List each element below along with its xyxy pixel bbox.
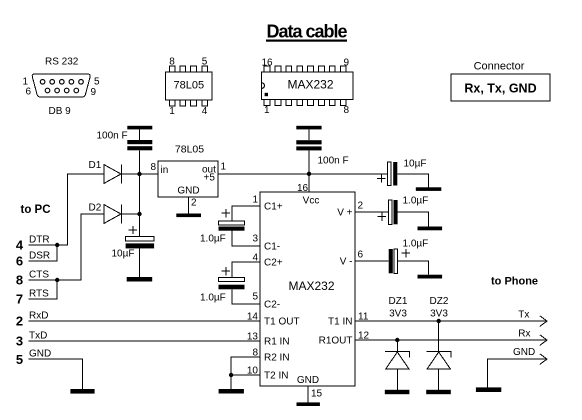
svg-text:1.0µF: 1.0µF bbox=[403, 196, 429, 207]
svg-text:DTR: DTR bbox=[29, 235, 50, 246]
wire MAX232 GND stub bbox=[307, 386, 309, 402]
node: D1 cathode / 100nF / supply rail bbox=[137, 172, 141, 176]
svg-text:C2-: C2- bbox=[264, 300, 280, 311]
wire V- to capacitor bbox=[355, 260, 389, 262]
svg-text:GND: GND bbox=[297, 375, 319, 386]
svg-text:100n F: 100n F bbox=[318, 156, 349, 167]
svg-text:8: 8 bbox=[150, 162, 156, 173]
node: DZ1 on Rx line bbox=[395, 338, 399, 342]
svg-text:1: 1 bbox=[264, 105, 270, 116]
svg-text:DSR: DSR bbox=[29, 251, 50, 262]
ground (DZ1) bbox=[385, 390, 410, 394]
svg-text:MAX232: MAX232 bbox=[288, 279, 334, 293]
capacitor 1.0uF (V+, polarized) bbox=[378, 196, 429, 225]
wire 78L05 gnd stub bbox=[188, 197, 190, 214]
svg-text:DB 9: DB 9 bbox=[49, 106, 72, 117]
svg-text:RTS: RTS bbox=[29, 289, 49, 300]
svg-text:GND: GND bbox=[29, 349, 51, 360]
pin 2 RxD bbox=[16, 311, 49, 329]
svg-text:in: in bbox=[161, 165, 169, 176]
connector DB9 (RS 232) top view bbox=[22, 57, 100, 118]
capacitor 100nF (input) bbox=[97, 131, 153, 151]
svg-text:6: 6 bbox=[16, 254, 23, 269]
svg-text:RS 232: RS 232 bbox=[45, 57, 79, 68]
wire R2 IN strap bbox=[231, 357, 260, 389]
svg-text:2: 2 bbox=[16, 314, 23, 329]
capacitor C1 1.0uF (polarized) bbox=[200, 209, 245, 245]
wire RxD to MAX232 T1 OUT (pin14) bbox=[29, 320, 261, 322]
wire D2 cathode to supply rail bbox=[121, 213, 139, 215]
svg-text:2: 2 bbox=[358, 201, 364, 212]
wire capacitor C1 to C1- bbox=[232, 231, 260, 246]
wire V+ to capacitor bbox=[355, 211, 389, 213]
svg-text:V +: V + bbox=[337, 208, 352, 219]
ground (V- cap) bbox=[418, 275, 443, 279]
svg-text:GND: GND bbox=[177, 186, 199, 197]
ground (DZ2) bbox=[426, 390, 451, 394]
svg-text:78L05: 78L05 bbox=[174, 80, 205, 92]
ground (below input 10uF) bbox=[127, 277, 153, 282]
capacitor 10uF (input, polarized) bbox=[112, 226, 155, 260]
wire GND (pin5) to ground bbox=[29, 359, 83, 389]
svg-text:C1+: C1+ bbox=[264, 202, 283, 213]
node: DSR joins DTR bbox=[55, 243, 59, 247]
svg-text:D2: D2 bbox=[89, 203, 102, 214]
capacitor 1.0uF (V-, polarized, reversed) bbox=[389, 239, 429, 274]
svg-text:8: 8 bbox=[16, 273, 23, 288]
arrow Tx bbox=[540, 316, 547, 327]
ground (MAX232 pin15) bbox=[297, 402, 320, 406]
diode D1 bbox=[89, 160, 122, 184]
voltage regulator 78L05 bbox=[158, 144, 218, 198]
node: DZ2 on Tx line bbox=[437, 319, 441, 323]
svg-text:1: 1 bbox=[252, 195, 258, 206]
svg-text:R1 IN: R1 IN bbox=[264, 337, 290, 348]
pin 5 GND bbox=[16, 349, 51, 368]
svg-text:CTS: CTS bbox=[29, 270, 49, 281]
svg-text:9: 9 bbox=[344, 57, 350, 68]
node: RTS joins CTS bbox=[55, 278, 59, 282]
arrow GND bbox=[540, 354, 547, 365]
ground (pin5) bbox=[70, 389, 94, 394]
svg-text:T1 OUT: T1 OUT bbox=[264, 317, 300, 328]
svg-text:13: 13 bbox=[247, 332, 259, 343]
svg-text:MAX232: MAX232 bbox=[287, 78, 333, 92]
svg-text:to PC: to PC bbox=[21, 204, 51, 216]
zener DZ2 3V3 bbox=[426, 296, 451, 390]
title "Data cable" bbox=[266, 21, 348, 41]
wire ground to Vcc 100nF bbox=[308, 129, 310, 140]
ground (phone GND) bbox=[476, 387, 501, 392]
arrow Rx bbox=[540, 335, 547, 346]
svg-text:+5: +5 bbox=[204, 173, 216, 184]
svg-text:7: 7 bbox=[16, 292, 23, 307]
svg-text:R1OUT: R1OUT bbox=[319, 336, 353, 347]
svg-text:Connector: Connector bbox=[474, 61, 525, 73]
wire DSR (pin6) up to DTR bbox=[29, 245, 58, 261]
capacitor C2 1.0uF (polarized) bbox=[200, 267, 245, 304]
svg-text:4: 4 bbox=[202, 106, 208, 117]
svg-text:GND: GND bbox=[513, 347, 535, 358]
svg-text:to Phone: to Phone bbox=[491, 276, 538, 288]
ground (above input 100nF) bbox=[127, 126, 152, 130]
wire 10uF to ground bbox=[397, 174, 428, 187]
svg-text:T1 IN: T1 IN bbox=[328, 317, 352, 328]
svg-text:1: 1 bbox=[169, 106, 175, 117]
node: Vcc tap on +5 rail bbox=[307, 172, 311, 176]
svg-text:5: 5 bbox=[202, 57, 208, 68]
capacitor 100nF (Vcc decoupling) bbox=[296, 140, 348, 166]
svg-text:1.0µF: 1.0µF bbox=[200, 293, 226, 304]
svg-text:8: 8 bbox=[169, 57, 175, 68]
pin 6 DSR bbox=[16, 251, 50, 269]
ground (10uF) bbox=[416, 187, 442, 191]
wire RTS (pin7) up to CTS bbox=[29, 280, 58, 299]
phone connector legend box bbox=[451, 61, 550, 102]
wire Vcc 100nF to rail bbox=[308, 150, 310, 174]
wire DTR (pin4) to D1 anode bbox=[29, 174, 104, 245]
wire capacitor C2 to C2- bbox=[232, 289, 260, 304]
wire V- cap to ground bbox=[398, 261, 429, 275]
capacitor 10uF (on +5 rail, polarized) bbox=[377, 159, 427, 186]
svg-text:R2 IN: R2 IN bbox=[264, 353, 290, 364]
svg-text:1: 1 bbox=[221, 162, 227, 173]
svg-text:100n F: 100n F bbox=[97, 131, 128, 142]
svg-text:DZ1: DZ1 bbox=[389, 296, 408, 307]
ground (above Vcc 100nF) bbox=[296, 126, 321, 130]
svg-text:T2 IN: T2 IN bbox=[264, 371, 288, 382]
wire TxD to MAX232 R1 IN (pin13) bbox=[29, 340, 261, 342]
wire C2+ to capacitor C2 bbox=[232, 262, 260, 278]
svg-text:Rx: Rx bbox=[518, 329, 530, 340]
svg-text:5: 5 bbox=[94, 77, 100, 88]
wire GND to arrow bbox=[488, 359, 547, 387]
IC package 78L05 (top view) bbox=[166, 57, 212, 118]
svg-text:8: 8 bbox=[344, 105, 350, 116]
svg-text:C2+: C2+ bbox=[264, 258, 283, 269]
svg-text:5: 5 bbox=[252, 292, 258, 303]
wire C1+ to capacitor C1 bbox=[232, 206, 260, 221]
wire ground to 100nF bbox=[139, 129, 141, 140]
pin 7 RTS bbox=[16, 289, 49, 307]
svg-text:TxD: TxD bbox=[29, 331, 47, 342]
ground (V+ cap) bbox=[418, 227, 443, 231]
wire Vcc stub into MAX232 bbox=[308, 174, 310, 192]
svg-text:16: 16 bbox=[262, 57, 274, 68]
svg-text:6: 6 bbox=[358, 250, 364, 261]
svg-text:3V3: 3V3 bbox=[430, 309, 448, 320]
zener DZ1 3V3 bbox=[385, 296, 410, 390]
pin 3 TxD bbox=[16, 331, 47, 349]
svg-text:78L05: 78L05 bbox=[175, 144, 204, 156]
svg-text:3: 3 bbox=[16, 334, 23, 349]
svg-text:DZ2: DZ2 bbox=[430, 296, 449, 307]
wire V+ cap to ground bbox=[398, 212, 429, 227]
svg-text:4: 4 bbox=[16, 238, 24, 253]
svg-text:1.0µF: 1.0µF bbox=[200, 234, 226, 245]
svg-text:C1-: C1- bbox=[264, 242, 280, 253]
wire supply rail vertical bbox=[139, 150, 141, 236]
pin 8 CTS bbox=[16, 270, 49, 288]
ground (78L05 pin2) bbox=[176, 214, 201, 218]
pin 4 DTR bbox=[16, 235, 50, 253]
svg-text:2: 2 bbox=[191, 198, 197, 209]
svg-text:5: 5 bbox=[16, 352, 23, 367]
wire T2 IN strap bbox=[231, 374, 260, 376]
node: D2 cathode joins rail bbox=[137, 212, 141, 216]
svg-text:Vcc: Vcc bbox=[303, 196, 320, 207]
svg-text:3: 3 bbox=[252, 234, 258, 245]
wire T1 IN to Tx arrow bbox=[355, 320, 547, 322]
wire CTS (pin8) to D2 anode bbox=[29, 214, 104, 280]
IC package MAX232 (top view) bbox=[262, 57, 354, 116]
wire +5 rail from 78L05 out to 10uF bbox=[218, 173, 388, 175]
wire D1 cathode to 78L05 input bbox=[121, 173, 158, 175]
svg-text:14: 14 bbox=[247, 312, 259, 323]
MAX232 IC (schematic symbol) bbox=[260, 192, 355, 386]
svg-text:Data cable: Data cable bbox=[266, 21, 347, 41]
svg-text:Tx: Tx bbox=[518, 310, 529, 321]
node: R2IN/T2IN junction bbox=[229, 373, 233, 377]
wire R1OUT to Rx arrow bbox=[355, 339, 547, 341]
svg-text:Rx, Tx, GND: Rx, Tx, GND bbox=[464, 82, 536, 96]
svg-text:15: 15 bbox=[311, 389, 323, 400]
svg-text:6: 6 bbox=[25, 87, 31, 98]
diode D2 bbox=[89, 203, 122, 224]
svg-text:V -: V - bbox=[340, 257, 353, 268]
svg-text:9: 9 bbox=[91, 87, 97, 98]
svg-text:10µF: 10µF bbox=[112, 249, 135, 260]
wire 10uF to ground bbox=[139, 248, 141, 277]
svg-text:10µF: 10µF bbox=[404, 159, 427, 170]
ground (R2IN/T2IN) bbox=[219, 389, 244, 394]
svg-text:3V3: 3V3 bbox=[389, 309, 407, 320]
svg-text:D1: D1 bbox=[89, 160, 102, 171]
svg-text:RxD: RxD bbox=[29, 311, 48, 322]
svg-text:1.0µF: 1.0µF bbox=[403, 239, 429, 250]
